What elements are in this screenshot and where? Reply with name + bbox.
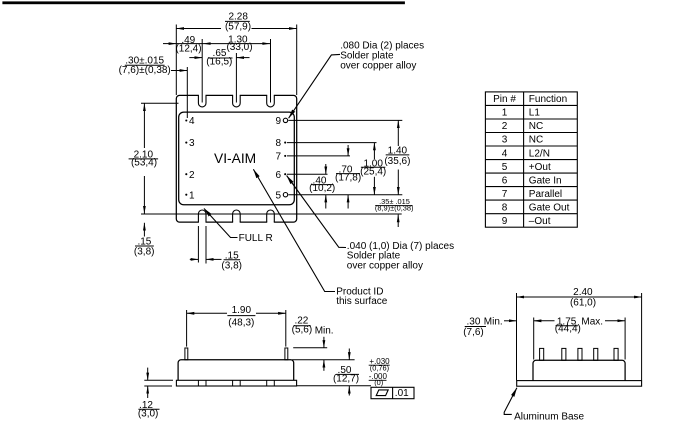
svg-text:9: 9 [276, 116, 282, 127]
dimension .15 left fraction bar [135, 245, 154, 247]
svg-text:3: 3 [189, 138, 195, 149]
dimension .22 ext pin top [293, 347, 327, 349]
bottom slot 2 [233, 210, 241, 222]
dimension .12 lower arrow [147, 386, 149, 398]
side view pin 5 [614, 348, 618, 360]
pin 9 leader line [288, 119, 402, 121]
dimension .15 left arrow [143, 223, 145, 237]
pin 9 circle [283, 118, 287, 122]
dimension 2.10 line upper [143, 103, 145, 148]
pin 7 dot [284, 155, 286, 157]
dimension .15 slot line left [190, 258, 199, 260]
dimension 1.75 line left [534, 320, 555, 322]
flatness frame divider [392, 387, 394, 398]
extension line body left edge [175, 25, 177, 96]
flatness frame box [371, 387, 414, 398]
standoff plane line across bottom [141, 213, 402, 215]
svg-text:VI-AIM: VI-AIM [214, 151, 256, 166]
dimension 2.28 fraction bar [225, 20, 250, 22]
svg-text:2: 2 [189, 170, 195, 181]
dimension .50 lower arrow [348, 386, 350, 396]
dimension .49 outside arrow [163, 43, 176, 45]
svg-text:NC: NC [529, 135, 543, 146]
svg-text:6: 6 [502, 175, 508, 186]
dimension .40 lower arrow [325, 195, 327, 209]
svg-text:–Out: –Out [529, 216, 551, 227]
dimension .35 fraction bar [375, 205, 412, 207]
top view inner module body [179, 112, 295, 205]
extension line slot1 center [201, 39, 203, 103]
svg-text:7: 7 [502, 189, 508, 200]
dimension 1.00 fraction bar [361, 166, 385, 168]
pin 3 dot [185, 142, 187, 144]
aluminum base leader [504, 388, 517, 415]
svg-text:FULL R: FULL R [239, 233, 273, 244]
front view left pin [185, 348, 188, 360]
top slot 3 [267, 95, 275, 106]
svg-text:5: 5 [502, 162, 508, 173]
dimension .12 ext flange bottom [144, 385, 172, 387]
svg-text:Function: Function [529, 94, 567, 105]
extension line slot1 left edge below [197, 226, 199, 263]
svg-text:2: 2 [502, 121, 508, 132]
dimension 1.75 line right [605, 320, 625, 322]
dimension .12 fraction bar [138, 408, 159, 410]
svg-text:(44,4): (44,4) [555, 324, 581, 335]
dimension .50 fraction bar [336, 373, 359, 375]
dimension .30 arrow [171, 70, 187, 72]
svg-text:(7,6): (7,6) [463, 327, 484, 338]
note .080 leader [289, 54, 340, 118]
dimension .30 fraction bar [125, 64, 165, 66]
dimension 1.40 upper arrow [397, 120, 399, 146]
dimension .22 fraction bar [294, 325, 311, 327]
extension line slot2 center [235, 53, 237, 103]
slot mouth masks [199, 94, 274, 224]
side view module body [533, 360, 625, 380]
top slot 2 [233, 95, 241, 107]
dimension 1.00 lower arrow [373, 177, 375, 195]
svg-text:(5,6): (5,6) [292, 325, 313, 336]
svg-text:(61,0): (61,0) [570, 298, 596, 309]
dimension 2.40 line right [600, 296, 642, 298]
dimension .22 ext body top [292, 359, 355, 361]
dimension 2.28 line right [252, 28, 297, 30]
svg-text:9: 9 [502, 216, 508, 227]
dimension 1.90 line left [187, 312, 227, 314]
svg-text:(10,2): (10,2) [309, 183, 335, 194]
svg-text:4: 4 [502, 148, 508, 159]
svg-text:(3,8): (3,8) [134, 246, 155, 257]
front view flange plate [176, 380, 296, 386]
dimension .15 slot fraction bar [224, 259, 241, 261]
svg-text:(17,8): (17,8) [335, 172, 361, 183]
dimension .49 / 1.30 shared line [177, 43, 271, 45]
front view module body [178, 360, 294, 381]
dimension 2.40 ext right [641, 293, 643, 380]
dimension 2.40 line mid [560, 296, 600, 298]
dimension 2.10 line lower [143, 176, 145, 214]
pin 5 circle [283, 193, 287, 197]
svg-text:Pin #: Pin # [493, 94, 516, 105]
dimension 1.00 upper arrow [373, 143, 375, 160]
svg-text:(16,5): (16,5) [206, 56, 232, 67]
svg-text:Aluminum Base: Aluminum Base [514, 412, 584, 423]
front view right pin [285, 348, 288, 360]
svg-text:.30: .30 [467, 316, 481, 327]
svg-text:1.90: 1.90 [232, 305, 252, 316]
svg-text:(33,0): (33,0) [226, 42, 252, 53]
dimension .50 ext baseplate bottom [297, 385, 371, 387]
svg-text:L1: L1 [529, 108, 541, 119]
side view pin 4 [594, 348, 598, 360]
pin 2 dot [185, 173, 187, 175]
pin table grid [485, 92, 577, 227]
extension line pin4 column [186, 67, 188, 118]
svg-text:1: 1 [502, 108, 508, 119]
dimension 2.10 fraction bar [129, 158, 159, 160]
dimension .70 lower arrow [347, 195, 349, 209]
flatness parallelogram symbol [376, 390, 388, 396]
svg-text:Min.: Min. [315, 325, 334, 336]
pin 6 dot [284, 173, 286, 175]
svg-text:Parallel: Parallel [529, 189, 562, 200]
svg-text:(48,3): (48,3) [228, 318, 254, 329]
svg-text:8: 8 [276, 138, 282, 149]
svg-text:(12,4): (12,4) [175, 43, 201, 54]
svg-text:(0): (0) [374, 378, 383, 387]
dimension .70 upper arrow [347, 145, 349, 156]
dimension .40 upper arrow [325, 164, 327, 174]
dimension .70 fraction bar [336, 173, 360, 175]
svg-text:6: 6 [276, 170, 282, 181]
dimension .15 slot line right [206, 258, 222, 260]
svg-text:4: 4 [189, 116, 195, 127]
dimension 1.40 lower arrow [397, 170, 399, 195]
svg-text:Gate Out: Gate Out [529, 202, 570, 213]
dimension .50 upper arrow [348, 349, 350, 360]
svg-text:3: 3 [502, 135, 508, 146]
dimension .30 min fraction bar [465, 326, 486, 328]
dimension 2.40 ext left [516, 293, 518, 380]
dimension 1.75 ext right [624, 318, 626, 360]
side view aluminum baseplate [517, 381, 642, 387]
top-left extension line (slot bottom plane) [141, 102, 179, 104]
bottom slot 3 [267, 210, 275, 222]
dimension 2.28 line left [176, 28, 221, 30]
front view slot marks [198, 380, 274, 386]
dimension 1.40 fraction bar [386, 154, 410, 156]
svg-text:7: 7 [276, 152, 282, 163]
top view outer flange body [176, 95, 296, 222]
dimension .12 upper arrow [147, 368, 149, 381]
tolerance bar 2 [369, 379, 387, 381]
pin 4 dot [185, 119, 187, 121]
dimension .40 fraction bar [311, 184, 333, 186]
extension line body right edge [296, 25, 298, 96]
svg-text:Min.: Min. [484, 316, 503, 327]
dimension 1.90 fraction bar [227, 315, 255, 317]
dimension 1.30 right arrowhead [262, 42, 270, 45]
tolerance bar 1 [369, 364, 390, 366]
dimension 1.90 ext left [186, 310, 188, 347]
note product id leader [253, 169, 335, 291]
svg-text:(8,9)±(0,38): (8,9)±(0,38) [375, 204, 414, 213]
svg-text:2.40: 2.40 [573, 287, 593, 298]
note .040 leader [287, 176, 346, 248]
dimension .65 line right [236, 57, 249, 59]
pin 7 leader line [287, 155, 350, 157]
dimension 1.90 line right [256, 312, 286, 314]
svg-text:Max.: Max. [581, 316, 603, 327]
svg-text:8: 8 [502, 202, 508, 213]
dimension 1.90 ext right [285, 310, 287, 347]
svg-text:(57,9): (57,9) [225, 22, 251, 33]
svg-text:over copper alloy: over copper alloy [340, 61, 416, 72]
dimension 1.30 left arrowhead [203, 42, 211, 45]
svg-text:1: 1 [189, 190, 195, 201]
svg-text:+Out: +Out [529, 162, 551, 173]
svg-text:NC: NC [529, 121, 543, 132]
dimension .22 lower arrow [323, 360, 325, 371]
pin 1 dot [185, 194, 187, 196]
svg-text:(12,7): (12,7) [333, 374, 359, 385]
svg-text:5: 5 [276, 190, 282, 201]
note full r leader [204, 209, 238, 238]
dimension .65 fraction bar [208, 57, 233, 59]
dimension 1.75 ext left [533, 318, 535, 360]
svg-text:over copper alloy: over copper alloy [347, 260, 423, 271]
pin 8 leader line [287, 142, 377, 144]
dimension 2.40 line left [517, 296, 561, 298]
dimension .30 arrow [504, 320, 517, 322]
svg-text:.01: .01 [395, 388, 409, 399]
extension line slot1 right edge below [205, 226, 207, 264]
dimension .35 lower arrow [397, 215, 399, 227]
bottom slot 1 [198, 210, 206, 222]
side view pin 2 [562, 348, 566, 360]
svg-text:(3,8): (3,8) [221, 261, 242, 272]
svg-text:Gate In: Gate In [529, 175, 562, 186]
pin 6 leader line [287, 173, 328, 175]
dimension .12 ext flange top [144, 379, 173, 381]
page top border rule [2, 1, 405, 4]
extension line slot3 center [270, 39, 272, 103]
side view pin 1 [540, 348, 544, 360]
svg-text:(25,4): (25,4) [360, 166, 386, 177]
dimension .65 line left [189, 57, 202, 59]
svg-text:this surface: this surface [336, 296, 388, 307]
svg-text:(3,0): (3,0) [138, 409, 159, 420]
svg-text:(35,6): (35,6) [384, 156, 410, 167]
dimension .22 upper arrow [323, 337, 325, 348]
side view pin 3 [578, 348, 582, 360]
svg-text:L2/N: L2/N [529, 148, 550, 159]
svg-text:(7,6)±(0,38): (7,6)±(0,38) [119, 65, 171, 76]
pin 8 dot [284, 142, 286, 144]
top slot 1 [198, 95, 206, 107]
svg-text:(53,4): (53,4) [131, 158, 157, 169]
dimension 1.75 fraction bar [556, 325, 578, 327]
pin 5 leader line [288, 194, 402, 196]
